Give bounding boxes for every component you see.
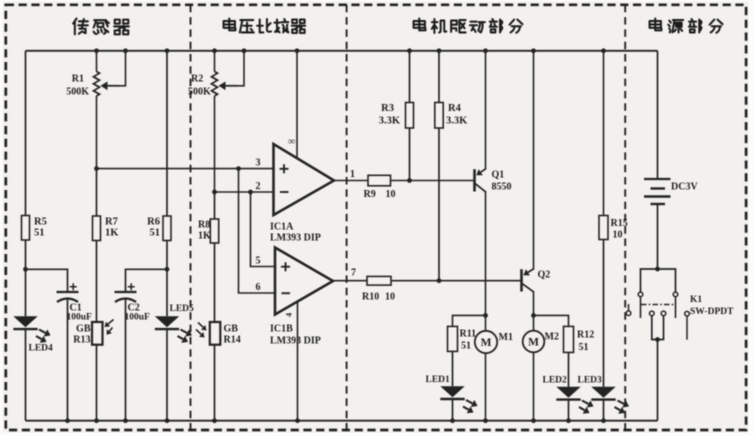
svg-text:∞: ∞: [288, 137, 296, 148]
svg-text:R1: R1: [72, 74, 84, 85]
svg-text:51: 51: [150, 228, 161, 239]
svg-text:R2: R2: [191, 74, 203, 85]
node sensor-right junction: [165, 267, 170, 272]
wire R13 to ground rail: [96, 345, 98, 421]
node rail/R1-wiper: [123, 48, 128, 53]
svg-text:M2: M2: [545, 332, 559, 343]
motor M1: [475, 331, 497, 353]
wire pin3 to IC1B pin6: [239, 169, 276, 293]
svg-text:M1: M1: [499, 332, 513, 343]
svg-text:10: 10: [613, 230, 623, 241]
wire junction to C2: [126, 269, 168, 292]
svg-text:3.3K: 3.3K: [379, 116, 401, 127]
wire R6 to junction: [166, 241, 168, 270]
potentiometer R2 500K: [212, 48, 217, 53]
wire C2 to ground rail: [125, 300, 127, 421]
resistor R7: [96, 169, 98, 216]
svg-text:100uF: 100uF: [125, 313, 151, 323]
svg-text:100uF: 100uF: [67, 313, 93, 323]
node R4/Q2 base wire: [437, 278, 442, 283]
wire C1 to ground rail: [67, 300, 69, 421]
wire LED1 to ground rail: [452, 398, 454, 421]
node pin3/pin6 tap: [236, 166, 241, 171]
wire R10 to Q2 base: [391, 280, 522, 282]
transistor Q2 8550: [520, 269, 523, 291]
wire LED2 to ground rail: [568, 399, 570, 421]
capacitor C1 100uF: [57, 291, 79, 293]
svg-text:IC1B: IC1B: [270, 324, 293, 335]
LED LED1: [440, 386, 464, 397]
svg-text:M: M: [528, 337, 539, 349]
wire IC1B output pin7: [333, 280, 367, 282]
wire branch to R12: [534, 315, 569, 326]
resistor R4 3.3K: [437, 48, 442, 53]
svg-text:R8: R8: [198, 220, 210, 231]
wire R5 to junction: [25, 240, 27, 269]
title motor drive section: [414, 19, 426, 31]
wire R14 to ground rail: [214, 345, 216, 421]
svg-text:M: M: [481, 337, 492, 349]
wire top power rail: [26, 50, 658, 52]
switch K1 pole contacts: [638, 292, 643, 297]
wire R15 to LED3: [603, 240, 605, 387]
resistor R6: [163, 216, 171, 241]
svg-text:7: 7: [351, 268, 356, 279]
svg-text:LM393 DIP: LM393 DIP: [270, 336, 321, 347]
svg-text:1: 1: [350, 169, 355, 180]
svg-text:3.3K: 3.3K: [446, 116, 468, 127]
title power section: [650, 19, 662, 31]
svg-text:K1: K1: [690, 295, 702, 305]
pin 8 power line IC1A: [295, 48, 300, 53]
svg-text:2: 2: [256, 181, 261, 192]
battery DC3V: [644, 178, 671, 180]
node collector/R12 branch: [531, 313, 536, 318]
wire branch to R11: [453, 315, 486, 326]
LED LED2: [556, 387, 580, 398]
capacitor C2 100uF: [115, 291, 137, 293]
switch pole arms: [640, 297, 642, 318]
wire M2 to ground rail: [533, 352, 535, 420]
wire rail to battery: [657, 51, 659, 179]
resistor R3 3.3K: [407, 48, 412, 53]
photoresistor R13 (GB): [92, 322, 103, 345]
svg-text:R9: R9: [364, 189, 376, 200]
svg-text:DC3V: DC3V: [671, 182, 698, 193]
wire throw stubs to lower bracket: [652, 316, 664, 340]
wire Q1 emitter to rail: [483, 48, 488, 53]
switch throw contacts: [628, 304, 630, 311]
resistor R12 51: [564, 326, 574, 352]
section divider comparator/motor: [346, 5, 348, 430]
wire junction to C1: [26, 269, 68, 292]
node sensor-left junction: [23, 267, 28, 272]
node R1/R7/pin3 junction: [94, 166, 99, 171]
stub unused throw: [686, 316, 688, 340]
svg-text:IC1A: IC1A: [270, 222, 294, 233]
svg-text:1K: 1K: [198, 231, 211, 242]
wire R8 to R14: [214, 243, 216, 322]
svg-text:R10: R10: [362, 292, 379, 303]
svg-text:3: 3: [256, 158, 261, 169]
op-amp IC1A LM393: [274, 144, 335, 215]
resistor R10 10: [367, 276, 391, 285]
section divider motor/power: [624, 5, 626, 430]
svg-text:LED1: LED1: [426, 375, 451, 385]
wire pin2 to IC1B pin5: [251, 192, 276, 267]
wire LED5 to ground rail: [166, 328, 168, 421]
section divider sensor/comparator: [190, 5, 192, 430]
resistor R15 10: [601, 48, 606, 53]
svg-text:LED3: LED3: [578, 376, 603, 386]
svg-text:R5: R5: [34, 217, 47, 228]
svg-text:LM393 DIP: LM393 DIP: [270, 233, 321, 244]
wire R11 to LED1: [452, 351, 454, 386]
node R2/R8/pin2 junction: [212, 190, 217, 195]
title sensor section (chuan-gan-qi): [73, 19, 88, 35]
svg-text:GB: GB: [76, 324, 91, 335]
node collector/R11 branch: [483, 313, 488, 318]
wire junction to LED4: [25, 269, 27, 316]
svg-text:51: 51: [579, 342, 589, 353]
svg-text:R3: R3: [381, 103, 394, 114]
potentiometer R1 500K: [96, 51, 98, 72]
wire LED3 to ground rail: [603, 399, 605, 421]
wire R6 column top: [165, 48, 170, 53]
svg-text:R13: R13: [73, 335, 90, 346]
title voltage comparator section: [224, 19, 236, 31]
op-amp IC1B LM393: [275, 248, 333, 315]
wire Q1 collector down: [485, 192, 487, 330]
svg-text:R12: R12: [577, 330, 594, 341]
resistor R9 10: [368, 175, 391, 186]
svg-text:Q1: Q1: [492, 170, 505, 181]
wire R5 column top: [25, 51, 27, 216]
node battery/switch junction: [655, 267, 660, 272]
resistor R5: [22, 216, 30, 241]
wire junction to LED5: [166, 269, 168, 316]
transistor Q1 8550: [473, 169, 476, 191]
svg-text:10: 10: [386, 189, 396, 200]
wire R12 to LED2: [568, 352, 570, 386]
svg-text:SW-DPDT: SW-DPDT: [690, 307, 734, 317]
svg-text:R14: R14: [224, 335, 241, 346]
svg-text:R6: R6: [147, 217, 160, 228]
wire R9 to Q1 base: [391, 180, 475, 182]
LED LED5: [155, 316, 179, 327]
resistor R11 51: [448, 326, 458, 351]
switch mechanical link: [641, 304, 674, 306]
wire bottom ground rail: [26, 420, 658, 422]
wire pin3 net (sensor to IC1A pin 3): [97, 168, 274, 170]
svg-text:500K: 500K: [66, 87, 89, 98]
photoresistor R14 (GB): [210, 322, 221, 345]
svg-text:LED2: LED2: [543, 376, 568, 386]
svg-text:R15: R15: [611, 218, 628, 229]
R1 wiper arm: [108, 85, 120, 87]
svg-text:5: 5: [256, 256, 261, 267]
LED LED4: [13, 316, 37, 327]
wire LED4 to ground rail: [25, 328, 27, 421]
wire Q2 collector down: [533, 292, 535, 331]
wire pin2 net: [215, 191, 274, 193]
wire R7 to R13: [96, 241, 98, 323]
svg-text:R7: R7: [105, 217, 118, 228]
wire battery to switch: [657, 204, 659, 269]
motor M2: [523, 331, 545, 353]
svg-text:8550: 8550: [492, 182, 512, 193]
pin 4 power line IC1B: [297, 302, 299, 421]
svg-text:51: 51: [461, 341, 471, 352]
svg-text:1K: 1K: [105, 228, 119, 239]
wire Q2 emitter to rail: [531, 48, 536, 53]
wire IC1A output pin1: [334, 180, 368, 182]
svg-text:500K: 500K: [188, 87, 211, 98]
svg-text:6: 6: [256, 282, 261, 293]
resistor R8: [214, 192, 216, 219]
svg-text:LED4: LED4: [29, 344, 54, 354]
wire M1 to ground rail: [485, 353, 487, 421]
node pin2/pin5 tap: [248, 190, 253, 195]
svg-text:R4: R4: [448, 103, 462, 114]
wire switch to ground rail: [657, 340, 659, 421]
svg-text:51: 51: [34, 228, 45, 239]
svg-text:R11: R11: [460, 329, 477, 340]
svg-text:LED5: LED5: [170, 304, 195, 314]
R2 wiper arm: [226, 85, 238, 87]
svg-text:Q2: Q2: [538, 270, 551, 281]
node R3/base wire: [407, 178, 412, 183]
svg-text:10: 10: [385, 292, 395, 303]
node rail/R1: [94, 48, 99, 53]
svg-text:GB: GB: [224, 324, 239, 335]
wire switch top bracket: [641, 269, 676, 292]
LED LED3: [591, 387, 615, 398]
